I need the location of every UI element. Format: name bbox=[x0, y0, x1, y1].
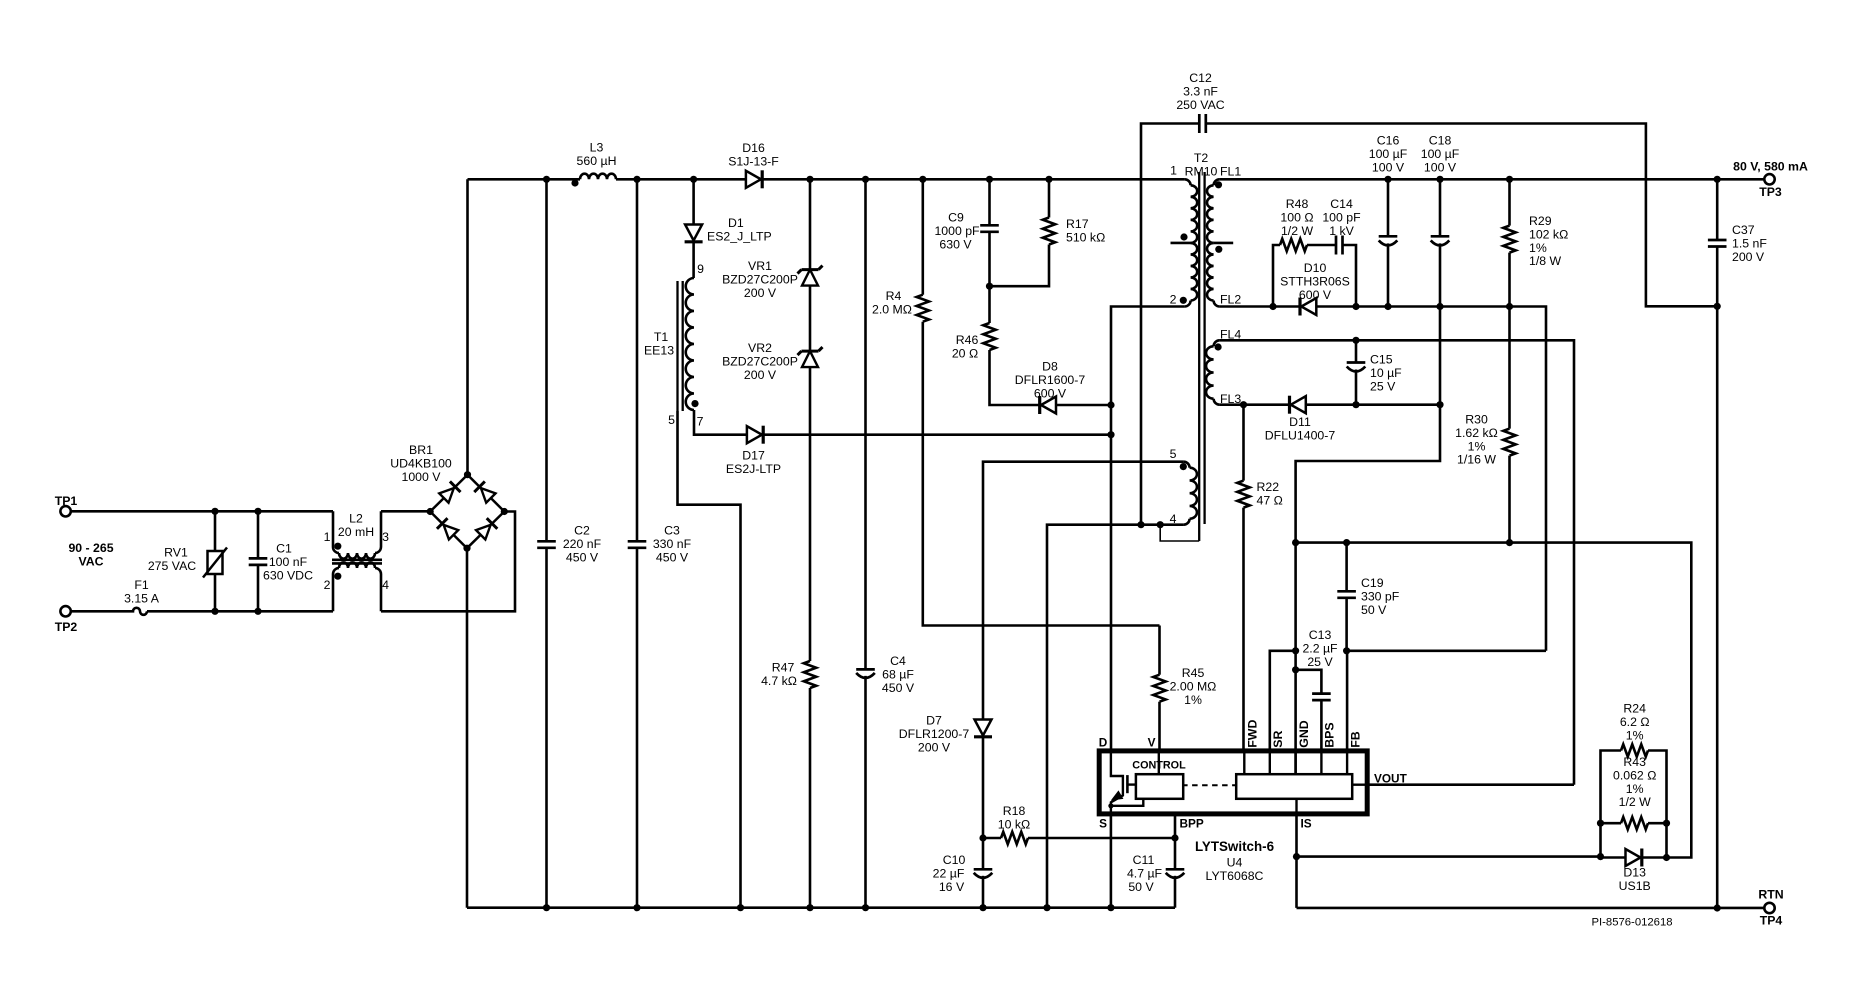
svg-text:600 V: 600 V bbox=[1299, 288, 1332, 302]
wire FL3 to D11 bbox=[1220, 403, 1290, 406]
svg-text:1/2 W: 1/2 W bbox=[1281, 224, 1314, 238]
svg-text:C4: C4 bbox=[890, 654, 906, 668]
wire R29 to divider node bbox=[1508, 253, 1511, 307]
U4 V pin internal lead bbox=[1158, 751, 1160, 774]
test point TP2 bbox=[60, 606, 70, 616]
zener VR1 BZD27C200P 200 V bbox=[802, 268, 819, 271]
node C18 bottom bbox=[1436, 303, 1443, 310]
node FB at C19 bbox=[1343, 647, 1350, 654]
svg-text:R17: R17 bbox=[1066, 217, 1089, 231]
wire IS pin down bbox=[1295, 814, 1298, 908]
wire D10 to C16 C18 node bbox=[1316, 307, 1546, 651]
svg-text:ES2_J_LTP: ES2_J_LTP bbox=[707, 230, 772, 244]
svg-text:DFLR1600-7: DFLR1600-7 bbox=[1015, 373, 1086, 387]
transformer T2 winding FL4 FL3 bbox=[1214, 340, 1220, 346]
choke L2 core bars bbox=[332, 558, 382, 561]
svg-text:LYT6068C: LYT6068C bbox=[1206, 869, 1264, 883]
svg-text:U4: U4 bbox=[1227, 856, 1243, 870]
node R30 bottom bbox=[1506, 539, 1513, 546]
resistor R17 510 kOhm bbox=[1043, 218, 1055, 245]
svg-text:US1B: US1B bbox=[1619, 879, 1651, 893]
resistor R45 2.00 MOhm bbox=[1158, 626, 1161, 675]
L2 polarity dot pin 2 bbox=[334, 573, 341, 580]
svg-text:100 V: 100 V bbox=[1372, 160, 1405, 174]
wire C9 to R46 node bbox=[988, 232, 991, 323]
wire rail to C9 bbox=[988, 179, 991, 225]
node R47 bottom bbox=[806, 904, 813, 911]
svg-text:R22: R22 bbox=[1257, 480, 1280, 494]
svg-text:TP1: TP1 bbox=[55, 494, 78, 508]
choke L2 20 mH top winding bbox=[333, 511, 339, 553]
node shunt left at R43 bbox=[1597, 820, 1604, 827]
fuse F1 3.15 A bbox=[127, 608, 148, 615]
svg-text:630 V: 630 V bbox=[939, 237, 972, 251]
test point TP3 bbox=[1764, 174, 1774, 184]
svg-text:0.062 Ω: 0.062 Ω bbox=[1613, 768, 1656, 782]
resistor R43 0.062 Ohm bbox=[1601, 822, 1622, 825]
svg-text:C14: C14 bbox=[1330, 197, 1353, 211]
node D1 anode branch bbox=[690, 176, 697, 183]
BR1 diode top-right bbox=[481, 488, 496, 503]
svg-text:R18: R18 bbox=[1003, 804, 1026, 818]
svg-text:EE13: EE13 bbox=[644, 344, 674, 358]
svg-text:RM10: RM10 bbox=[1185, 164, 1218, 178]
T2 FL1 polarity dot bbox=[1215, 181, 1222, 188]
wire T2 pin 5 to bias node bbox=[983, 462, 1184, 720]
BR1 diode bottom-right bbox=[476, 525, 491, 540]
svg-text:DFLU1400-7: DFLU1400-7 bbox=[1265, 428, 1336, 442]
wire T2 pin 2 to drain and D pin bbox=[1111, 307, 1185, 751]
node IS sense branch bbox=[1293, 853, 1300, 860]
svg-text:450 V: 450 V bbox=[882, 681, 915, 695]
node shield pigtail at pin 4 bbox=[1157, 521, 1164, 528]
resistor R18 10 kOhm bbox=[983, 837, 1001, 840]
capacitor C1 100 nF 630 VDC bbox=[257, 511, 260, 558]
node C18 top bbox=[1436, 176, 1443, 183]
node C3 top bbox=[633, 176, 640, 183]
svg-text:C16: C16 bbox=[1377, 134, 1400, 148]
svg-text:L2: L2 bbox=[349, 512, 363, 526]
svg-text:100 V: 100 V bbox=[1424, 160, 1457, 174]
svg-text:R24: R24 bbox=[1623, 702, 1646, 716]
U4 GND internal lead bbox=[1294, 751, 1296, 774]
node C15 bottom bbox=[1352, 401, 1359, 408]
capacitor C10 22 uF 16 V bbox=[974, 868, 993, 871]
svg-text:200 V: 200 V bbox=[744, 368, 777, 382]
svg-text:D16: D16 bbox=[742, 141, 765, 155]
svg-text:C12: C12 bbox=[1189, 71, 1212, 85]
svg-text:16 V: 16 V bbox=[939, 880, 965, 894]
wire rail to C4 bbox=[864, 179, 867, 669]
wire primary bottom rail bbox=[467, 906, 1175, 909]
transformer T2 winding FL2 bbox=[1207, 243, 1214, 301]
wire R45 to V pin bbox=[1158, 702, 1161, 751]
svg-text:VR2: VR2 bbox=[748, 341, 772, 355]
svg-text:68 µF: 68 µF bbox=[882, 667, 914, 681]
svg-text:D: D bbox=[1099, 736, 1108, 750]
svg-text:1/2 W: 1/2 W bbox=[1619, 795, 1652, 809]
svg-text:1%: 1% bbox=[1468, 439, 1486, 453]
svg-text:1.5 nF: 1.5 nF bbox=[1732, 236, 1767, 250]
wire rail to R4 bbox=[921, 179, 924, 294]
svg-text:TP4: TP4 bbox=[1760, 914, 1783, 928]
U4 FWD internal lead bbox=[1243, 751, 1245, 774]
wire D17 to drain node bbox=[762, 433, 1111, 436]
svg-text:D10: D10 bbox=[1304, 261, 1327, 275]
node shunt left bottom bbox=[1597, 853, 1604, 860]
wire R46 to D8 bbox=[990, 350, 1041, 405]
svg-text:TP2: TP2 bbox=[55, 620, 78, 634]
wire R18 to BPP pin bbox=[1028, 837, 1175, 840]
U4 FB internal lead bbox=[1346, 751, 1348, 774]
svg-text:25 V: 25 V bbox=[1370, 379, 1396, 393]
svg-text:C11: C11 bbox=[1133, 853, 1155, 867]
node C15 top bbox=[1352, 337, 1359, 344]
svg-text:90 - 265: 90 - 265 bbox=[68, 541, 113, 555]
wire D8 to drain node bbox=[1056, 404, 1111, 407]
svg-text:VR1: VR1 bbox=[748, 259, 772, 273]
svg-text:FL2: FL2 bbox=[1220, 293, 1241, 307]
wire R22 to FWD pin bbox=[1242, 508, 1245, 751]
svg-text:450 V: 450 V bbox=[566, 550, 599, 564]
svg-text:2.00 MΩ: 2.00 MΩ bbox=[1170, 679, 1217, 693]
T1 polarity dot pin 7 bbox=[691, 400, 698, 407]
svg-text:200 V: 200 V bbox=[744, 286, 777, 300]
svg-text:BPS: BPS bbox=[1323, 722, 1337, 747]
wire C18 bottom through FL3 node to GND corner bbox=[1296, 243, 1440, 773]
node C9 top bbox=[986, 176, 993, 183]
T2 primary tap stub bbox=[1171, 242, 1191, 245]
wire C12 left leg bbox=[1141, 124, 1199, 525]
svg-text:20 mH: 20 mH bbox=[338, 525, 374, 539]
resistor R47 4.7 kOhm bbox=[804, 661, 816, 688]
wire rail to D1 bbox=[692, 179, 695, 224]
svg-text:4: 4 bbox=[382, 578, 389, 592]
wire F1 to L2 pin 2 bbox=[147, 610, 333, 613]
svg-text:SR: SR bbox=[1271, 731, 1285, 748]
node C37 top bbox=[1714, 176, 1721, 183]
svg-text:R30: R30 bbox=[1465, 413, 1488, 427]
svg-text:R29: R29 bbox=[1529, 214, 1552, 228]
node R17 top bbox=[1045, 176, 1052, 183]
svg-text:C18: C18 bbox=[1429, 134, 1452, 148]
node VR1 branch bbox=[806, 176, 813, 183]
IC U4 LYT6068C body bbox=[1099, 751, 1367, 814]
svg-text:R45: R45 bbox=[1182, 666, 1205, 680]
node R22 top bbox=[1240, 401, 1247, 408]
svg-text:ES2J-LTP: ES2J-LTP bbox=[726, 462, 781, 476]
wire BR1 minus down to bottom rail bbox=[466, 548, 469, 908]
L3 polarity dot bbox=[571, 179, 578, 186]
svg-text:T2: T2 bbox=[1194, 151, 1209, 165]
node C16 top bbox=[1384, 176, 1391, 183]
wire R30 to GND line bbox=[1508, 456, 1511, 543]
resistor R29 102 kOhm bbox=[1508, 179, 1511, 225]
node C1 top bbox=[254, 508, 261, 515]
BR1 diode bottom-left bbox=[444, 525, 459, 540]
svg-text:4.7 kΩ: 4.7 kΩ bbox=[761, 674, 797, 688]
capacitor C13 2.2 uF 25 V bbox=[1312, 692, 1331, 695]
wire R48 C14 branch left leg bbox=[1273, 245, 1280, 307]
svg-text:FB: FB bbox=[1348, 731, 1362, 748]
svg-text:100 pF: 100 pF bbox=[1322, 210, 1361, 224]
svg-text:1000 V: 1000 V bbox=[402, 470, 442, 484]
node R4 top bbox=[919, 176, 926, 183]
wire D7 to BPP network bbox=[982, 737, 985, 870]
svg-text:330 nF: 330 nF bbox=[653, 537, 692, 551]
resistor R46 20 Ohm bbox=[983, 323, 995, 350]
wire T1 pin 7 to D17 bbox=[694, 410, 747, 435]
svg-text:UD4KB100: UD4KB100 bbox=[390, 456, 452, 470]
svg-text:1%: 1% bbox=[1626, 782, 1644, 796]
resistor R48 100 Ohm 1/2 W bbox=[1280, 239, 1307, 251]
svg-text:22 µF: 22 µF bbox=[933, 866, 965, 880]
svg-text:220 nF: 220 nF bbox=[563, 537, 602, 551]
svg-text:25 V: 25 V bbox=[1307, 655, 1333, 669]
svg-text:C37: C37 bbox=[1732, 223, 1755, 237]
node C9 R17 junction bbox=[986, 283, 993, 290]
svg-text:200 V: 200 V bbox=[1732, 250, 1765, 264]
U4 control to source link bbox=[1111, 799, 1143, 806]
svg-text:5: 5 bbox=[1170, 447, 1177, 461]
bridge rectifier BR1 UD4KB100 frame bbox=[430, 475, 504, 549]
resistor R4 2.0 MOhm bbox=[917, 295, 929, 322]
svg-text:D13: D13 bbox=[1623, 866, 1646, 880]
capacitor C9 1000 pF 630 V bbox=[980, 224, 999, 227]
svg-text:2: 2 bbox=[324, 578, 331, 592]
capacitor C37 1.5 nF 200 V bbox=[1716, 179, 1719, 240]
wire L2 pin 4 to BR1 right vertex bbox=[381, 512, 515, 612]
T2 pin 5 polarity dot bbox=[1180, 463, 1187, 470]
U4 BPS internal lead bbox=[1320, 751, 1322, 774]
wire D11 to FL3 return node bbox=[1306, 403, 1440, 406]
svg-text:20 Ω: 20 Ω bbox=[952, 346, 978, 360]
svg-text:C2: C2 bbox=[574, 524, 590, 538]
BR1 vertex nodes bbox=[464, 471, 471, 478]
wire BPP pin to R18 node bbox=[1174, 814, 1177, 838]
svg-text:C1: C1 bbox=[276, 542, 292, 556]
svg-text:R48: R48 bbox=[1286, 197, 1309, 211]
svg-text:VAC: VAC bbox=[78, 554, 103, 568]
svg-text:R47: R47 bbox=[772, 661, 795, 675]
svg-text:V: V bbox=[1148, 736, 1156, 750]
svg-text:C15: C15 bbox=[1370, 353, 1393, 367]
node C12 leg at pin 4 bbox=[1137, 521, 1144, 528]
diode D17 ES2J-LTP bbox=[747, 426, 762, 443]
node T2 pin 4 leg at rail bbox=[1043, 904, 1050, 911]
wire VR2 to R47 bbox=[809, 367, 812, 661]
node C37 at RTN rail bbox=[1714, 904, 1721, 911]
U4 dashed control link bbox=[1182, 784, 1236, 786]
node D17 drain junction bbox=[1107, 431, 1114, 438]
node GND vertical top bbox=[1292, 539, 1299, 546]
node C19 top bbox=[1343, 539, 1350, 546]
svg-text:FL1: FL1 bbox=[1220, 164, 1241, 178]
wire D16 to T2 pin 1 bbox=[761, 178, 1184, 181]
wire C14 branch right leg bbox=[1343, 245, 1357, 307]
node C2 bottom bbox=[543, 904, 550, 911]
transformer T2 primary lower winding pin 2 bbox=[1191, 243, 1198, 301]
svg-text:GND: GND bbox=[1297, 720, 1311, 748]
wire FB pin up through C19 bbox=[1346, 651, 1349, 751]
svg-text:T1: T1 bbox=[654, 330, 669, 344]
node D8 drain junction bbox=[1107, 401, 1114, 408]
wire C4 to bottom rail bbox=[864, 676, 867, 908]
svg-text:PI-8576-012618: PI-8576-012618 bbox=[1591, 917, 1672, 929]
svg-text:1: 1 bbox=[324, 530, 331, 544]
svg-text:1%: 1% bbox=[1626, 728, 1644, 742]
wire VOUT to FL4 leg bbox=[1367, 783, 1574, 786]
node R48 C14 left bbox=[1269, 303, 1276, 310]
svg-text:C19: C19 bbox=[1361, 576, 1384, 590]
wire SR pin link bbox=[1270, 651, 1296, 751]
wire BR1 plus to top rail bbox=[466, 179, 469, 474]
T2 FL2 polarity dot bbox=[1215, 246, 1222, 253]
svg-text:TP3: TP3 bbox=[1759, 185, 1782, 199]
svg-text:D8: D8 bbox=[1042, 360, 1058, 374]
wire R4 to R45 line bbox=[923, 322, 1160, 626]
node C37 C12 junction bbox=[1714, 303, 1721, 310]
capacitor C12 3.3 nF 250 VAC bbox=[1198, 114, 1201, 133]
svg-text:D11: D11 bbox=[1289, 415, 1311, 429]
transformer T1 EE13 winding 9-7 bbox=[686, 278, 694, 410]
svg-text:1%: 1% bbox=[1529, 241, 1547, 255]
svg-text:1 kV: 1 kV bbox=[1329, 224, 1354, 238]
T1 pin 5 lead down to bottom rail bbox=[678, 411, 741, 908]
node R29 top bbox=[1506, 176, 1513, 183]
svg-text:1/16 W: 1/16 W bbox=[1457, 453, 1496, 467]
T2 core bar left bbox=[1198, 172, 1200, 541]
svg-text:80 V, 580 mA: 80 V, 580 mA bbox=[1733, 160, 1808, 174]
BR1 diode top-left bbox=[439, 488, 454, 503]
svg-text:S: S bbox=[1099, 817, 1107, 831]
wire R47 to bottom rail bbox=[809, 688, 812, 908]
svg-text:2: 2 bbox=[1170, 293, 1177, 307]
svg-text:C3: C3 bbox=[664, 524, 680, 538]
wire FL2 to D10 anode node bbox=[1220, 305, 1300, 308]
svg-text:510 kΩ: 510 kΩ bbox=[1066, 230, 1105, 244]
inductor L3 560 uH bbox=[580, 174, 616, 180]
wire rail to R17 bbox=[1048, 179, 1051, 217]
svg-text:R46: R46 bbox=[956, 333, 979, 347]
svg-text:4.7 µF: 4.7 µF bbox=[1127, 866, 1163, 880]
U4 secondary block bbox=[1236, 774, 1352, 799]
node C10 bottom bbox=[979, 904, 986, 911]
node RV1 bottom bbox=[211, 608, 218, 615]
wire BPS branch bbox=[1296, 670, 1322, 694]
wire C37 to RTN rail bbox=[1716, 247, 1719, 909]
wire C10 to bottom rail bbox=[982, 876, 985, 908]
wire top rail from BR1 to L3 bbox=[468, 178, 581, 181]
node R18 left bbox=[979, 834, 986, 841]
svg-text:C10: C10 bbox=[943, 853, 966, 867]
svg-text:3.3 nF: 3.3 nF bbox=[1183, 84, 1218, 98]
wire VR1 to VR2 bbox=[809, 286, 812, 351]
transformer T2 primary lower winding pins 5-4 bbox=[1184, 462, 1190, 468]
svg-text:BPP: BPP bbox=[1180, 817, 1204, 831]
node C4 top bbox=[862, 176, 869, 183]
svg-text:3: 3 bbox=[382, 530, 389, 544]
svg-text:DFLR1200-7: DFLR1200-7 bbox=[899, 727, 970, 741]
wire shunt left rail bbox=[1601, 751, 1622, 857]
wire D1 to T1 pin 9 bbox=[692, 242, 695, 278]
resistor R24 6.2 Ohm bbox=[1621, 744, 1648, 756]
diode D13 US1B bbox=[1601, 856, 1626, 859]
svg-text:250 VAC: 250 VAC bbox=[1176, 98, 1224, 112]
svg-text:47 Ω: 47 Ω bbox=[1257, 493, 1283, 507]
svg-text:1%: 1% bbox=[1184, 693, 1202, 707]
wire R48 to C14 bbox=[1307, 244, 1336, 247]
svg-text:560 µH: 560 µH bbox=[577, 154, 617, 168]
node RV1 top bbox=[211, 508, 218, 515]
svg-text:100 Ω: 100 Ω bbox=[1280, 210, 1313, 224]
wire C13 to BPS pin bbox=[1320, 700, 1323, 751]
wire GND line bbox=[1296, 543, 1692, 858]
capacitor C18 100 uF 100 V bbox=[1439, 179, 1442, 236]
T2 shield pigtail to pin 4 bbox=[1160, 525, 1199, 541]
wire L2 pin 3 to BR1 left vertex bbox=[381, 510, 430, 513]
diode D7 DFLR1200-7 200 V bbox=[975, 720, 992, 736]
node SR at GND vertical bbox=[1292, 647, 1299, 654]
U4 source node dot bbox=[1108, 803, 1113, 808]
transformer T2 primary upper winding pin 1 bbox=[1185, 179, 1191, 185]
svg-text:LYTSwitch-6: LYTSwitch-6 bbox=[1195, 839, 1274, 854]
capacitor C15 10 uF 25 V bbox=[1355, 340, 1358, 362]
capacitor C14 100 pF 1 kV bbox=[1335, 236, 1338, 255]
T2 FL tap stub bbox=[1214, 242, 1234, 245]
svg-text:9: 9 bbox=[697, 262, 704, 276]
capacitor C19 330 pF 50 V bbox=[1345, 543, 1348, 592]
svg-text:6.2 Ω: 6.2 Ω bbox=[1620, 715, 1650, 729]
svg-text:100 nF: 100 nF bbox=[269, 555, 308, 569]
svg-text:1/8 W: 1/8 W bbox=[1529, 254, 1562, 268]
svg-text:600 V: 600 V bbox=[1034, 386, 1067, 400]
U4 SR internal lead bbox=[1269, 751, 1271, 774]
transformer T2 winding FL1 bbox=[1214, 179, 1220, 185]
resistor R30 1.62 kOhm bbox=[1508, 307, 1511, 429]
node C4 bottom bbox=[862, 904, 869, 911]
wire C12 right leg to C37 bottom bbox=[1206, 124, 1717, 307]
wire T2 pin 4 to ground leg bbox=[1047, 525, 1184, 908]
svg-text:50 V: 50 V bbox=[1361, 603, 1387, 617]
wire C11 to bottom rail end bbox=[1174, 876, 1177, 908]
svg-text:630 VDC: 630 VDC bbox=[263, 569, 313, 583]
svg-text:200 V: 200 V bbox=[918, 740, 951, 754]
svg-text:FWD: FWD bbox=[1246, 720, 1260, 748]
choke L2 bottom winding bbox=[333, 568, 339, 611]
node S pin at rail bbox=[1107, 904, 1114, 911]
svg-text:D17: D17 bbox=[742, 449, 765, 463]
U4 CONTROL block bbox=[1136, 774, 1183, 799]
svg-text:STTH3R06S: STTH3R06S bbox=[1280, 274, 1350, 288]
T1 core bars bbox=[676, 281, 678, 411]
T2 core bar right bbox=[1203, 172, 1205, 524]
varistor RV1 275 VAC bbox=[214, 511, 217, 551]
test point TP1 bbox=[60, 506, 70, 516]
svg-text:BZD27C200P: BZD27C200P bbox=[722, 272, 798, 286]
svg-text:5: 5 bbox=[668, 413, 675, 427]
diode D1 ES2_J_LTP bbox=[685, 225, 702, 241]
svg-text:1000 pF: 1000 pF bbox=[934, 224, 980, 238]
node R29 bottom R30 top FB link bbox=[1506, 303, 1513, 310]
capacitor C2 220 nF 450 V bbox=[545, 179, 548, 541]
svg-text:D1: D1 bbox=[728, 216, 744, 230]
wire L3 to D16 bbox=[616, 178, 746, 181]
svg-text:450 V: 450 V bbox=[656, 550, 689, 564]
svg-text:100 µF: 100 µF bbox=[1421, 147, 1460, 161]
svg-text:1: 1 bbox=[1170, 164, 1177, 178]
svg-text:F1: F1 bbox=[134, 578, 149, 592]
